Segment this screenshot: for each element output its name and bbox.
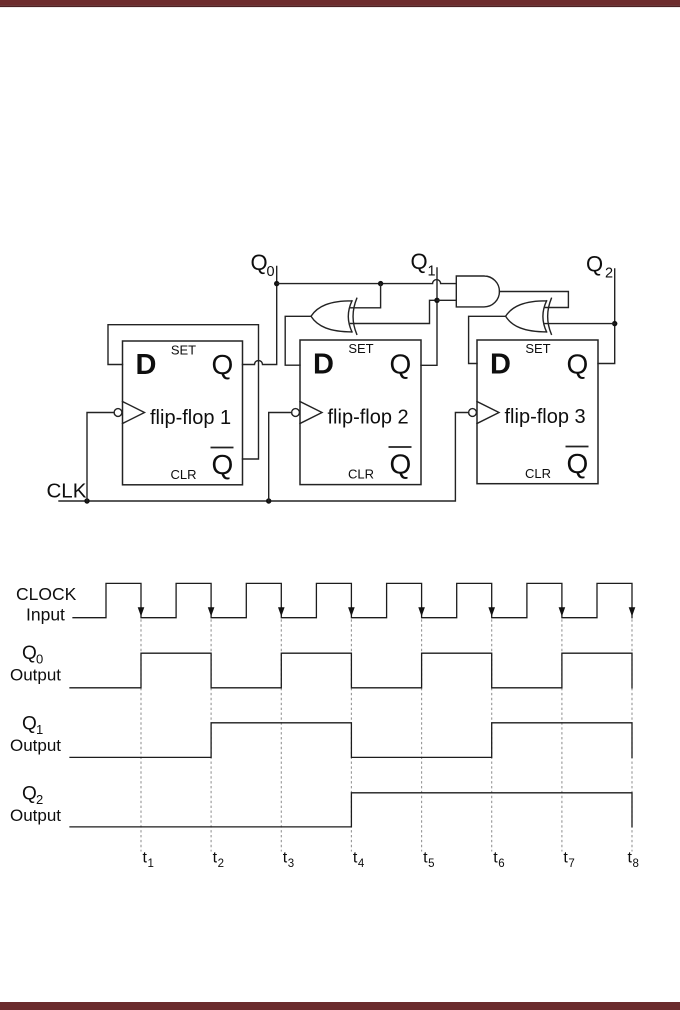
svg-text:7: 7 [568, 858, 574, 870]
wire flip-flop 3 Q to node Q2 [598, 269, 615, 364]
svg-text:1: 1 [148, 858, 154, 870]
svg-text:2: 2 [36, 792, 43, 807]
svg-text:Q: Q [22, 713, 37, 734]
top maroon bar [0, 0, 680, 6]
CLOCK waveform [73, 583, 632, 617]
clock falling-edge arrows [138, 607, 636, 616]
svg-text:Q: Q [251, 250, 268, 275]
svg-text:Q: Q [212, 449, 234, 480]
wire flip-flop 2 Q to node Q1 [421, 268, 437, 365]
svg-text:Q: Q [390, 449, 412, 480]
wire flip-flop 1 Qbar feedback to D [108, 325, 259, 459]
svg-text:Q: Q [586, 252, 603, 277]
svg-text:D: D [136, 349, 157, 381]
svg-text:Output: Output [10, 736, 61, 755]
svg-text:SET: SET [171, 343, 196, 358]
XOR gate X2 [506, 298, 552, 334]
junction CLK to flip-flop 1 [84, 498, 89, 503]
svg-text:5: 5 [428, 858, 434, 870]
flip-flop 3 clock bubble [469, 409, 477, 417]
time axis labels t1-t8 [143, 850, 633, 867]
wire XOR2 output to flip-flop 3 D [469, 316, 506, 363]
svg-text:CLR: CLR [170, 467, 196, 482]
wire flip-flop 1 Q to node Q0 (hop over feedback) [243, 267, 277, 365]
svg-text:Q: Q [390, 349, 412, 380]
svg-text:Output: Output [10, 806, 61, 825]
wire XOR1 output to flip-flop 2 D [285, 316, 311, 365]
flip-flop 2 box U2 [300, 340, 421, 485]
wire XOR1 input A from Q0 [350, 284, 380, 308]
wire XOR1 input B from Q1 [350, 300, 437, 323]
svg-text:D: D [313, 349, 334, 381]
Q0 waveform [70, 653, 632, 688]
timing gridlines t1-t8 (dashed) [141, 619, 632, 851]
svg-text:Q: Q [212, 349, 234, 380]
svg-text:CLR: CLR [525, 466, 551, 481]
bottom maroon bar [0, 1002, 680, 1010]
wire Q0 bus to AND input A (hop over Q1) [277, 280, 457, 284]
junction Q0 bus [274, 281, 279, 286]
svg-text:Q: Q [567, 448, 589, 479]
wire CLK to flip-flop 2 clock [269, 413, 292, 502]
svg-text:CLOCK: CLOCK [16, 584, 77, 604]
svg-text:SET: SET [348, 341, 373, 356]
svg-text:8: 8 [633, 858, 639, 870]
junction CLK to flip-flop 2 [266, 498, 271, 503]
svg-text:CLK: CLK [47, 480, 87, 503]
svg-text:SET: SET [525, 341, 550, 356]
junction Q0 to XOR1 [378, 281, 383, 286]
svg-text:1: 1 [428, 264, 436, 280]
svg-text:2: 2 [218, 858, 224, 870]
junction Q2 [612, 321, 617, 326]
svg-text:Q: Q [411, 249, 428, 274]
flip-flop 3 clock triangle [477, 402, 499, 424]
svg-text:Output: Output [10, 666, 61, 685]
Q2 waveform [70, 793, 632, 827]
AND gate A1 [456, 276, 499, 307]
flip-flop 1 clock bubble [114, 409, 122, 417]
svg-text:0: 0 [267, 264, 275, 280]
wire XOR2 input B from Q2 [545, 323, 615, 325]
svg-text:Input: Input [26, 605, 65, 625]
flip-flop 1 clock triangle [123, 402, 145, 424]
svg-text:1: 1 [36, 722, 43, 737]
flip-flop 1 box U1 [123, 341, 243, 485]
svg-text:0: 0 [36, 652, 43, 667]
XOR gate X1 [311, 298, 357, 334]
svg-text:D: D [490, 349, 511, 381]
svg-text:Q: Q [22, 784, 37, 805]
wire AND input B from Q1 [437, 299, 456, 301]
flip-flop 2 clock triangle [300, 402, 322, 424]
wire CLK to flip-flop 1 clock [87, 413, 114, 502]
svg-text:4: 4 [358, 858, 365, 870]
svg-text:Q: Q [22, 643, 37, 664]
flip-flop 3 box U3 [477, 340, 598, 484]
svg-text:Q: Q [567, 349, 589, 380]
svg-text:6: 6 [498, 858, 504, 870]
flip-flop 2 clock bubble [292, 409, 300, 417]
svg-text:2: 2 [605, 266, 613, 282]
wire CLK bus [59, 413, 469, 502]
svg-text:CLR: CLR [348, 467, 374, 482]
svg-text:flip-flop 1: flip-flop 1 [150, 407, 231, 429]
svg-text:3: 3 [288, 858, 294, 870]
Q1 waveform [70, 723, 632, 758]
svg-text:flip-flop 2: flip-flop 2 [328, 407, 409, 429]
wire AND output to XOR2 input A [500, 292, 569, 308]
junction Q1 [434, 298, 439, 303]
svg-text:flip-flop 3: flip-flop 3 [505, 406, 586, 428]
